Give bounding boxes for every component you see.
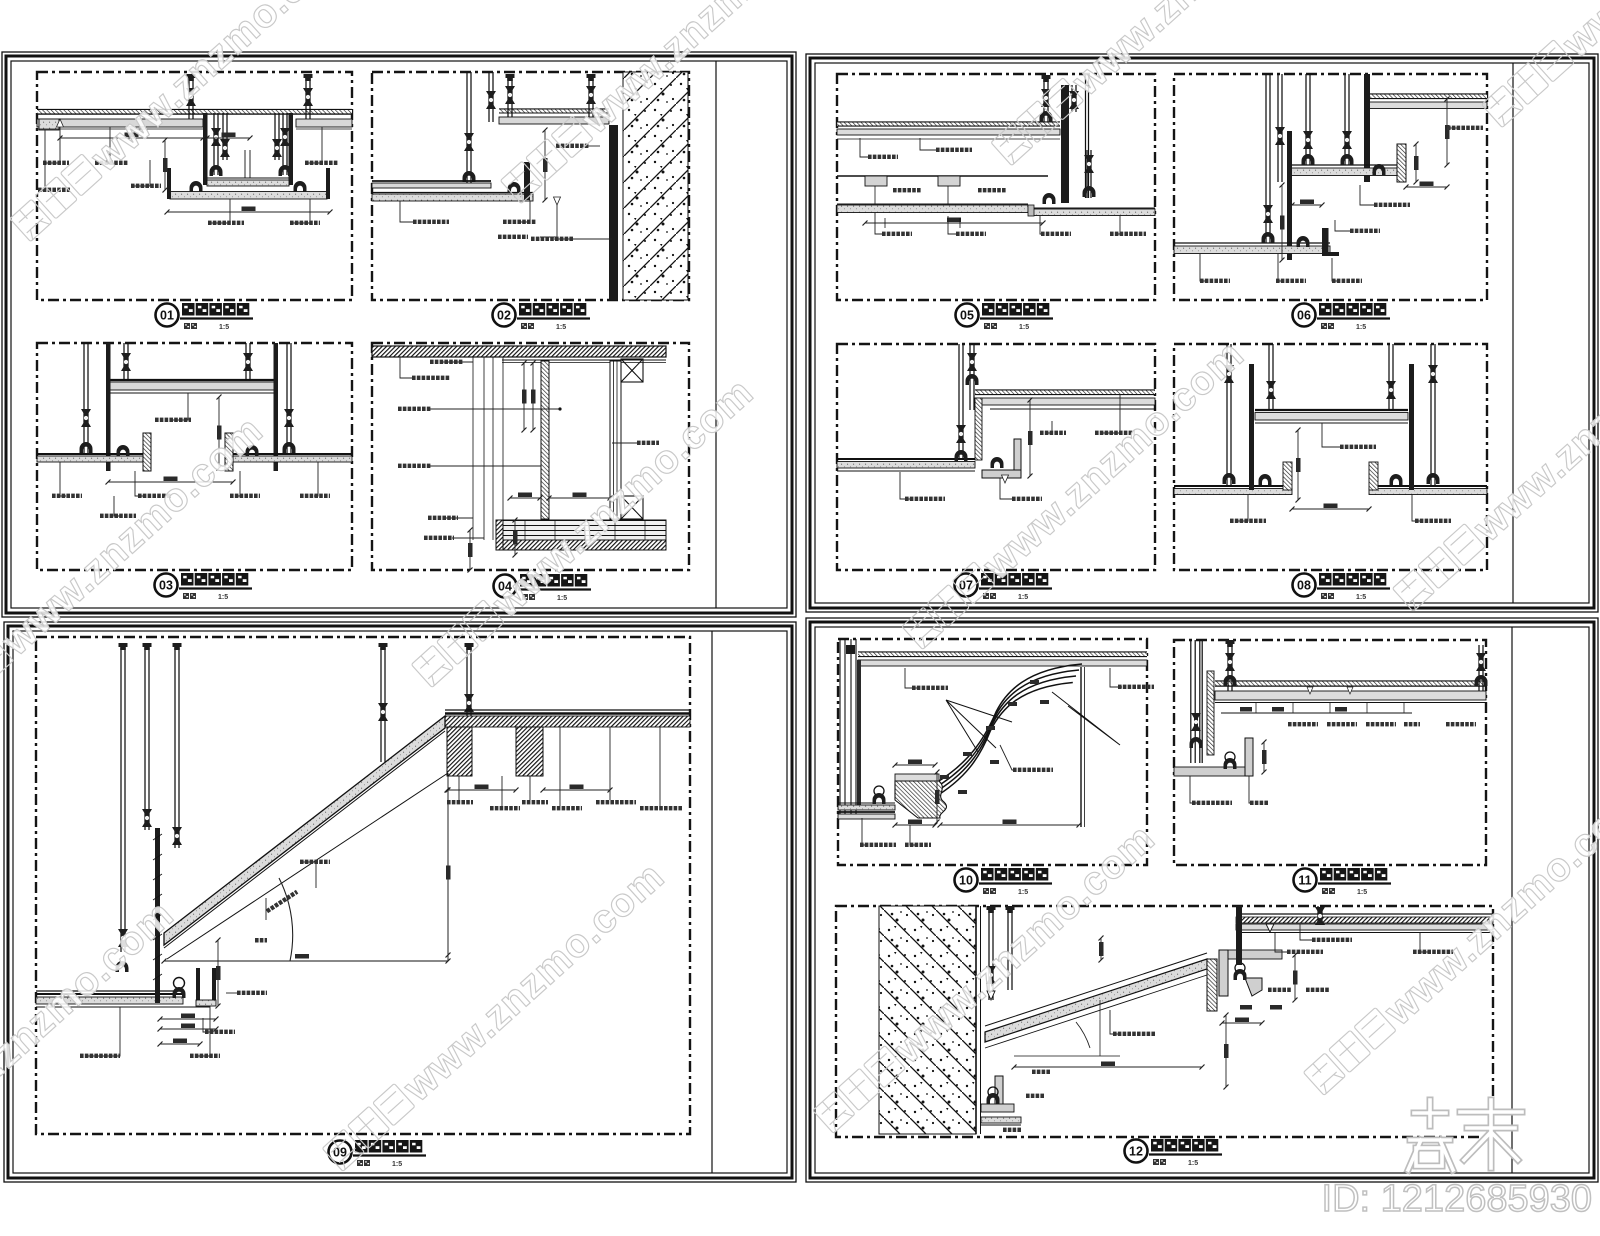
dim small D06 (1406, 186, 1447, 188)
L profile D02 (524, 162, 530, 200)
curve ticks D10 (1030, 680, 1039, 684)
hanger rod D06 d (1344, 74, 1346, 165)
hanger rod D02 b (588, 76, 590, 117)
side bar left D03 (106, 343, 111, 471)
clips D08 (1259, 474, 1272, 485)
detail frame 03 (37, 343, 352, 570)
S curves D10 (934, 664, 1082, 784)
leader label D03 b5 (114, 496, 120, 516)
leader label D02 bottom4 (554, 238, 612, 240)
dim horizontal D08 (1292, 508, 1369, 510)
ceiling band D11 (1215, 691, 1486, 700)
concrete wall D02 (623, 72, 688, 300)
svg-text:10: 10 (959, 874, 973, 888)
detail 05 stepped ceiling (837, 74, 1155, 236)
detail frame 06 (1174, 74, 1487, 300)
slab line D01 (37, 109, 352, 111)
dark block 09 a (447, 727, 472, 776)
left ceiling lower band D02 (372, 192, 533, 194)
label D05 in2 (860, 138, 868, 157)
left ceiling 09 (36, 990, 183, 992)
under-slab line D04 (502, 359, 666, 361)
cove box 09 (196, 968, 200, 1006)
label D05 in1 (920, 138, 936, 150)
leader label D03 b4 (314, 462, 318, 496)
label D10 t1 (905, 668, 920, 688)
leader fan D10 a (946, 700, 1012, 752)
stud pair D05 (1085, 74, 1087, 198)
title 07 (955, 573, 1053, 601)
title strip divider bottom-left (711, 631, 713, 1173)
right ceiling D08 (1369, 485, 1487, 487)
detail frame 10 (838, 639, 1147, 865)
hanger clip D01 b (294, 181, 307, 192)
sheet border bottom-left (4, 622, 796, 1182)
title 09 (329, 1140, 427, 1168)
dim vertical D01 (164, 140, 166, 190)
bottom-left cove D12 (995, 1076, 1003, 1106)
label D06 b1 (1200, 254, 1207, 281)
svg-text:02: 02 (497, 309, 511, 323)
leader slope mid D12 (1099, 1000, 1101, 1056)
recess soffit D01 (207, 177, 289, 179)
svg-text:03: 03 (159, 579, 173, 593)
label D10 b1 (862, 818, 868, 845)
upper ceiling D07 (975, 389, 1155, 391)
long hanger rod 09 b (144, 648, 146, 830)
gypsum band right D01 (296, 119, 352, 127)
L dark D06 (1322, 228, 1329, 256)
upper right ceiling D12 (1236, 913, 1493, 915)
triangle right side 09 (447, 773, 449, 961)
hanger D11 b (1478, 645, 1480, 691)
vertical leaders D05 (874, 186, 876, 204)
hypotenuse line 09 (167, 773, 448, 959)
wall hatch mark D10 (846, 645, 855, 654)
svg-text:1:5: 1:5 (1356, 594, 1366, 601)
label D07 b2 (1000, 478, 1012, 499)
hanger rod D01 b (222, 113, 224, 160)
stud hatched D04 (541, 361, 549, 519)
hanger rod 09 d (380, 648, 382, 762)
dim small 09 a (217, 940, 219, 1006)
hanger rod D01 outer-right (305, 76, 307, 119)
svg-text:1:5: 1:5 (218, 594, 228, 601)
small arrow D01 (57, 119, 64, 127)
detail frame 09 (36, 637, 690, 1134)
hanger rod D05 a (1043, 78, 1045, 122)
hanger rod D05 b (1071, 85, 1073, 112)
hanger clip D07 (991, 457, 1004, 468)
hanger clip D01 a (190, 181, 203, 192)
central band D08 (1255, 409, 1408, 411)
central top band D03 (110, 379, 274, 381)
plaster strip D02 (609, 125, 618, 300)
slope top line D12 (985, 953, 1207, 1026)
label D06 r3 (1335, 220, 1350, 231)
detail frame 07 (837, 344, 1155, 570)
arrow D12 c (1266, 924, 1274, 932)
recess wall right D01 (289, 113, 294, 185)
leader label D01 bottom2 (290, 199, 310, 223)
profile ticks 09 (153, 834, 162, 840)
title 08 (1293, 573, 1391, 601)
dim vertical D11 (1263, 742, 1265, 772)
edge profile left D01 (167, 168, 171, 199)
arrow D02 (554, 197, 561, 205)
hanger rod D03 inner-left (123, 343, 125, 381)
leader label D02 bottom2 (520, 201, 530, 222)
concrete wall D12 (879, 906, 976, 1134)
hanger rod D06 b (1277, 74, 1279, 182)
slope under line 09 (164, 731, 445, 948)
left ceiling D08 (1174, 485, 1292, 487)
hanger rod D05 c (1086, 150, 1088, 198)
wall layers D04 (610, 361, 621, 519)
detail 07 ceiling step with shadow gap (837, 344, 1155, 501)
left floor bands D10 (838, 802, 895, 804)
detail frame 05 (837, 74, 1155, 300)
title 05 (956, 303, 1054, 331)
hanger clip D05 (1043, 193, 1056, 204)
cornice D10 (895, 774, 939, 781)
stud rods D07 (958, 344, 960, 459)
title 10 (955, 868, 1053, 896)
label column right 09 (458, 776, 460, 800)
label D05 in3 (893, 188, 897, 192)
dark bar D05 (1061, 85, 1069, 203)
X-box bottom D04 (621, 496, 643, 519)
dim below band D01 (167, 211, 330, 213)
top band D06 (1369, 93, 1487, 95)
L profile right D06 (1397, 144, 1406, 182)
vertical bar b D06 (1287, 131, 1292, 260)
slope label 09 b (302, 862, 316, 888)
leader label D03 b2 (135, 471, 144, 496)
floor end cap D04 (496, 520, 503, 550)
title strip divider top-right (1512, 63, 1514, 603)
hanger rod D03 outer-right (286, 343, 288, 454)
gray cove vertical D12 (1219, 950, 1228, 996)
clip D11 (1225, 752, 1235, 762)
upper ceiling D05 (837, 121, 1060, 123)
label D08 b1 (1236, 495, 1248, 521)
edge profile right D01 (326, 168, 330, 199)
leader label D04 right (612, 442, 637, 444)
leader label D04 r3 (430, 465, 541, 467)
dim horizontal D03 (108, 481, 233, 483)
slope end block D12 (1207, 959, 1217, 1011)
adjusters D07 (967, 353, 977, 371)
leader label D03 b1 (60, 462, 66, 496)
wood floor D04 (503, 520, 666, 540)
leader label D02 bottom1 (400, 201, 413, 222)
leader label D04 r1 (443, 361, 473, 363)
svg-text:1:5: 1:5 (1018, 594, 1028, 601)
bottom labels D11 (1190, 776, 1200, 803)
svg-text:01: 01 (160, 309, 174, 323)
label D10 t2 (1110, 668, 1122, 687)
sheet border top-right (806, 54, 1598, 612)
svg-text:1:5: 1:5 (557, 595, 567, 602)
detail 11 flat ceiling edge (1174, 640, 1488, 805)
top slab line D11 (1215, 680, 1486, 682)
bar left D08 (1249, 364, 1254, 490)
long hanger rod 09 c (174, 648, 176, 848)
center dim D03 (218, 397, 220, 468)
detail 02 ceiling at concrete wall (372, 72, 688, 300)
sheet border top-left (2, 52, 796, 617)
detail 08 symmetric recess (1174, 344, 1487, 523)
lower ceiling band D01 (170, 192, 327, 200)
wall profile vertical 09 (155, 828, 160, 1003)
rod arrowhead D12 (987, 991, 995, 1000)
hanger rod D02 a (507, 76, 509, 117)
label D07 b1 (900, 472, 913, 499)
rods D12 a (988, 910, 990, 1000)
dark strip D12 (1236, 906, 1242, 965)
rods D12 b (1007, 910, 1009, 990)
svg-text:1:5: 1:5 (1356, 324, 1366, 331)
leader label D04 r4 (443, 517, 473, 519)
label D06 r2 (1360, 185, 1374, 205)
hanger rod D03 inner-right (245, 343, 247, 381)
leader label D01 bottom1 (208, 199, 230, 223)
hanger rod D01 a (213, 113, 215, 175)
dim D05 (865, 222, 1043, 224)
svg-text:06: 06 (1297, 309, 1311, 323)
corner stud b D02 (488, 72, 490, 122)
leader label D01 mid (133, 160, 150, 186)
center leader D03 (171, 393, 188, 420)
dim vertical D07 (1029, 400, 1031, 476)
leader label D04 r2 (430, 408, 560, 410)
svg-text:ID: 1212685930: ID: 1212685930 (1322, 1178, 1592, 1220)
svg-text:05: 05 (960, 309, 974, 323)
left wall studs D10 (839, 639, 841, 818)
left ceiling upper band D02 (372, 180, 491, 182)
leader label D01 frame-left (40, 130, 45, 190)
leader rail D11 (1221, 712, 1412, 714)
leader verticals D04 (472, 357, 474, 540)
label D05 b2 (948, 216, 956, 234)
bl cove clip D12 (988, 1087, 998, 1097)
label D05 b1 (875, 212, 882, 234)
base ticks 09 (162, 959, 167, 964)
rod D08 a (1226, 344, 1228, 486)
hanger rod D06 a (1265, 74, 1267, 243)
wall face line D12 (975, 906, 977, 1134)
svg-text:1:5: 1:5 (1019, 324, 1029, 331)
bl base D12 (981, 1117, 1021, 1123)
label D06 b3 (1332, 258, 1339, 281)
dim bottom 09 (160, 1043, 200, 1045)
label D10 curve (1000, 745, 1015, 770)
leader label D02 bottom3 (540, 200, 557, 237)
hanger clip right D03 (246, 445, 259, 456)
hanger rod D01 d (282, 113, 284, 175)
gray shelf D11 (1174, 767, 1252, 776)
leader label D01 right (305, 127, 322, 163)
hanger rod D01 outer-left (188, 76, 190, 119)
hanger rod D01 c (274, 113, 276, 160)
angle arc D12 (1076, 1022, 1090, 1048)
slope band D12 (985, 959, 1207, 1042)
arrowheads D11 (1307, 687, 1353, 694)
detail 01 ceiling recess section (37, 74, 352, 225)
dims D04 (523, 363, 525, 430)
rod D08 d (1430, 344, 1432, 486)
leader label D04 r5 (452, 537, 484, 539)
side bar right D03 (274, 343, 279, 471)
hanger rod D06 c (1305, 74, 1307, 165)
detail 09 sloped ceiling transition (36, 643, 690, 1058)
right slab 09 (445, 709, 690, 711)
upper ceiling D02 (499, 108, 609, 110)
rail drops D11 (1255, 703, 1257, 713)
svg-text:1:5: 1:5 (1018, 889, 1028, 896)
detail 12 sloped ceiling at wall (879, 906, 1493, 1134)
dims D10 (895, 764, 935, 766)
svg-text:11: 11 (1298, 874, 1311, 888)
detail 10 curved cove (838, 639, 1154, 847)
gray cove D12 (1219, 950, 1282, 959)
hanger rod 09 e (466, 648, 468, 724)
labels cove D12 (1268, 988, 1272, 992)
dim small 09 b (160, 1018, 216, 1020)
slope label 09 (266, 890, 299, 913)
title strip divider bottom-right (1511, 627, 1513, 1173)
under-band line D05 (837, 138, 1060, 140)
gray vertical D11 (1245, 738, 1253, 776)
corner stud D02 (466, 72, 468, 184)
top slab D04 (372, 346, 666, 357)
hanger clip left D03 (117, 445, 130, 456)
hanger D12 c (1317, 906, 1319, 924)
lower ceiling D07 (837, 458, 975, 460)
leader label D01 left2 (95, 127, 110, 163)
L profile left D03 (143, 433, 151, 471)
hanger clip low D06 (1297, 236, 1310, 247)
right ceiling D03 (228, 453, 352, 455)
svg-text:1:5: 1:5 (1188, 1160, 1198, 1167)
dims D12 (1014, 1066, 1202, 1068)
right slab hatch 09 (445, 716, 690, 727)
label D10 b2 (910, 825, 915, 845)
labels right D12 (1300, 924, 1312, 940)
lower band right D05 (1031, 209, 1155, 216)
step connector D05 (1028, 205, 1034, 216)
dim row under blocks 09 (447, 789, 516, 791)
clip D10 (874, 786, 884, 796)
detail frame 12 (836, 906, 1493, 1137)
cornice molding D10 (895, 781, 946, 818)
L profile right D03 (225, 433, 233, 471)
slope band 09 (164, 716, 445, 945)
cove clip D12 (1235, 963, 1245, 973)
dim right D06 (1446, 99, 1448, 165)
svg-text:12: 12 (1129, 1145, 1143, 1159)
dim vertical big 09 (447, 790, 449, 955)
L profile right D08 (1369, 462, 1378, 490)
title 01 (156, 303, 254, 331)
gypsum band left D01 (37, 119, 203, 127)
title 04 (494, 574, 592, 602)
leader fan D10 b (1052, 692, 1120, 745)
right vertical D10 (1080, 667, 1082, 827)
label D05 b3 (1040, 216, 1041, 234)
mid band D06 (1291, 164, 1406, 166)
hatched strip D07 (975, 398, 982, 460)
title 12 (1125, 1139, 1223, 1167)
low band D06 (1174, 242, 1330, 244)
L profile left D08 (1283, 462, 1292, 490)
long hanger rod 09 a (120, 648, 122, 952)
rod D08 b (1268, 344, 1270, 410)
detail 06 stair-step ceiling (1174, 74, 1487, 283)
leader label D01 left1 (43, 127, 60, 163)
leader label D03 b3 (235, 471, 240, 496)
slope bottom line D12 (985, 975, 1207, 1048)
recess wall left D01 (203, 113, 208, 185)
label D07 r2 (1101, 394, 1120, 433)
center dim D08 (1297, 430, 1299, 500)
label D06 b2 (1278, 254, 1283, 281)
arrow D07 (1002, 475, 1009, 483)
detail frame 08 (1174, 344, 1487, 570)
labels row D11 (1288, 722, 1292, 726)
recess centre fixture D01 (244, 150, 246, 178)
dim vertical D02 (544, 130, 546, 200)
sheet border bottom-right (806, 618, 1598, 1182)
hanger D11 a (1227, 643, 1229, 691)
bar right D08 (1409, 364, 1414, 490)
detail frame 04 (372, 343, 689, 570)
hatched strip D11 (1207, 671, 1214, 755)
under-band line D01 (37, 128, 203, 130)
adjusters D11 left (1191, 713, 1201, 731)
detail 03 recessed ceiling symmetric (37, 343, 352, 518)
dark block 09 b (516, 727, 543, 776)
slope label D12 (1110, 1010, 1120, 1034)
label D05 b4 (1116, 216, 1120, 234)
title 11 (1294, 868, 1392, 896)
title 03 (155, 573, 253, 601)
hanger rod D03 outer-left (83, 343, 85, 454)
small dims D11 (1240, 707, 1252, 712)
bl labels D12 (1003, 1128, 1007, 1132)
svg-text:08: 08 (1297, 579, 1311, 593)
title 06 (1293, 303, 1391, 331)
mid label 09 (265, 898, 267, 920)
label D07 r1 (1045, 421, 1052, 433)
svg-text:1:5: 1:5 (219, 324, 229, 331)
clip a D05 (865, 176, 887, 186)
triangle base 09 (164, 960, 448, 962)
svg-text:1:5: 1:5 (556, 324, 566, 331)
label D06 r1 (1447, 127, 1460, 129)
leader label D04 r0 (400, 357, 412, 378)
top ceiling D10 (858, 651, 1147, 653)
angle label 09 (255, 938, 259, 943)
lower band D05 (837, 205, 1028, 213)
adjuster circle 09 (174, 978, 185, 989)
gray L vertical D07 (1014, 439, 1021, 478)
gray L horizontal D07 (982, 470, 1021, 478)
hanger clip D02 (508, 182, 521, 193)
leader label D02 wall (585, 145, 600, 147)
rod D08 c (1388, 344, 1390, 410)
